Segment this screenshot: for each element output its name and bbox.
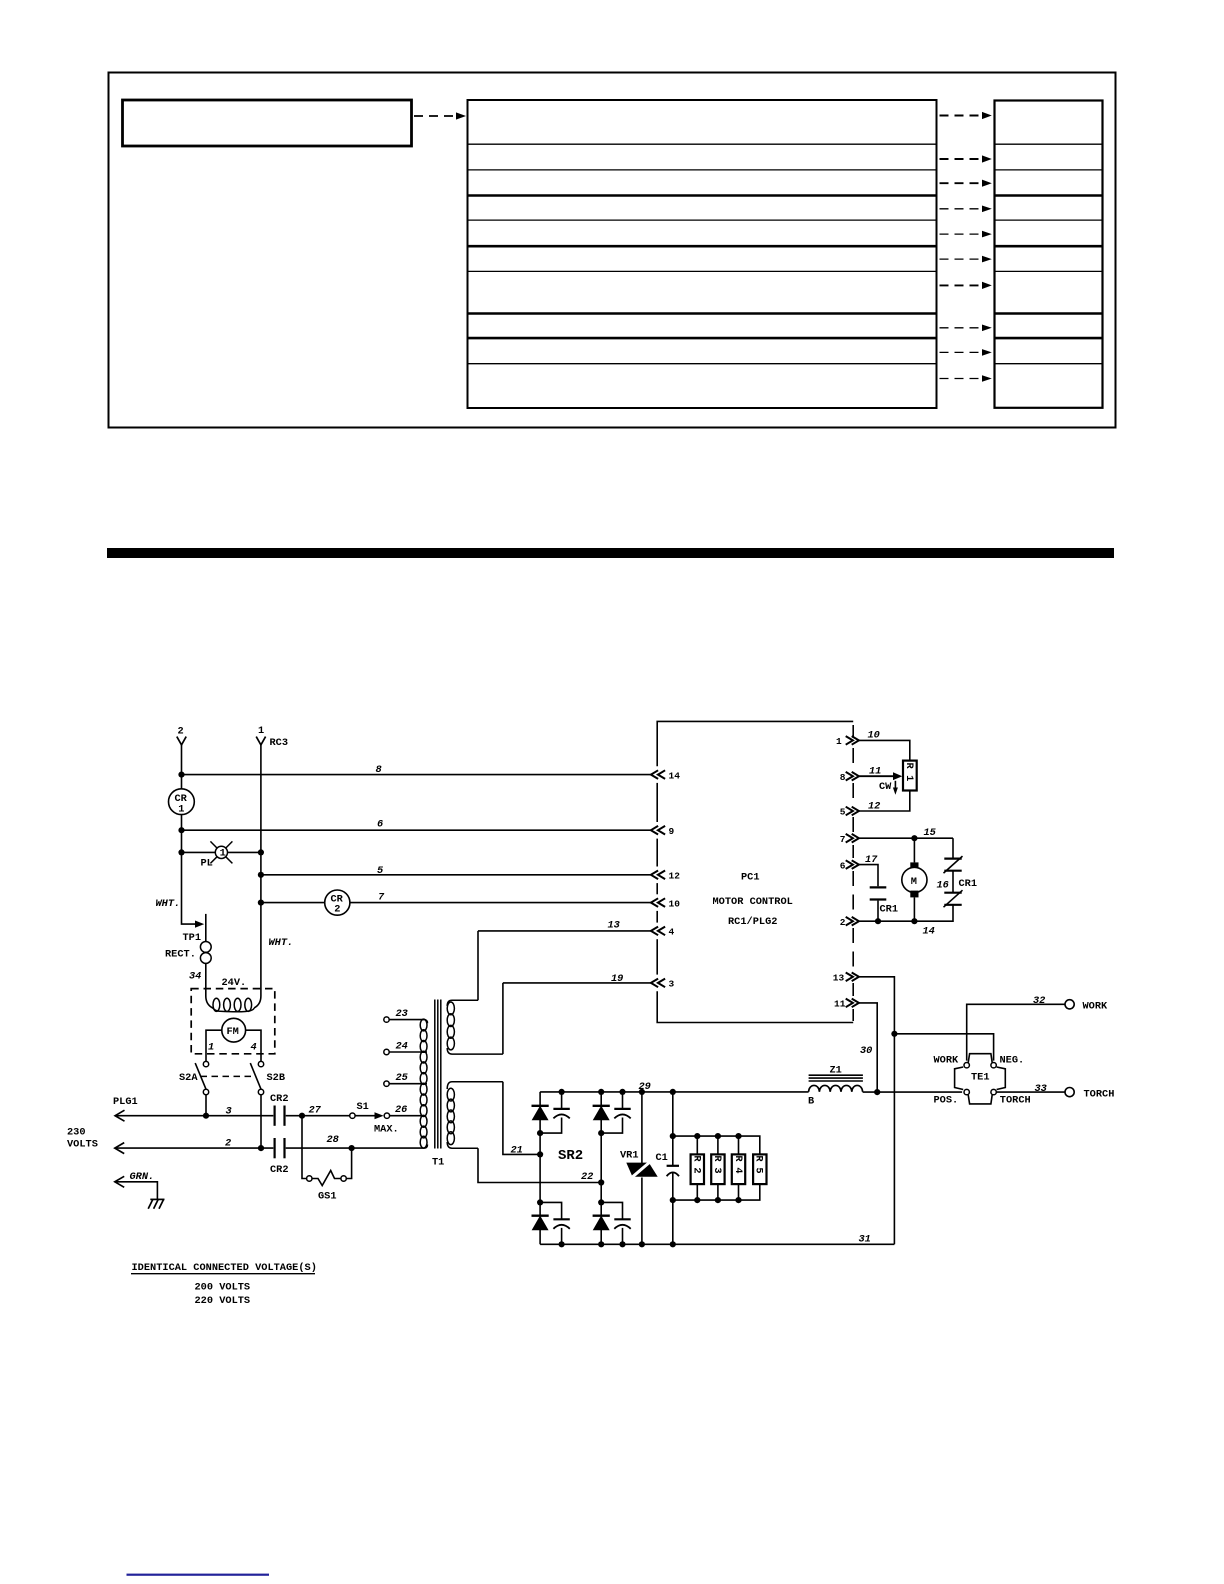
- pin 4 chevron: [651, 927, 665, 936]
- svg-text:WORK: WORK: [934, 1055, 960, 1067]
- bottom blue rule: [127, 1574, 270, 1576]
- wire 12: [859, 791, 910, 812]
- svg-text:12: 12: [868, 801, 880, 813]
- transformer T1 primary winding: [420, 1019, 427, 1148]
- junction on pos rail: [874, 1089, 880, 1095]
- svg-text:R4: R4: [732, 1155, 744, 1179]
- svg-text:23: 23: [396, 1008, 408, 1020]
- transformer core: [435, 1000, 441, 1149]
- terminal TORCH (RC): [1065, 1088, 1074, 1097]
- svg-text:GS1: GS1: [318, 1191, 337, 1203]
- pos rail continue to POS terminal: [863, 1091, 963, 1093]
- table arrow from small box: [414, 112, 466, 119]
- snubber cap upper-left: [540, 1092, 562, 1133]
- pin 1 chevron: [846, 736, 859, 745]
- svg-text:WORK: WORK: [1083, 1000, 1109, 1012]
- wire WORK branch: [967, 1004, 1065, 1060]
- test point TP1 vertical: [205, 914, 207, 942]
- svg-text:R5: R5: [752, 1155, 764, 1179]
- svg-text:9: 9: [669, 826, 675, 837]
- contact CR2 upper: [275, 1106, 285, 1126]
- junction 27: [299, 1113, 305, 1119]
- bridge bottom rail: [540, 1243, 894, 1245]
- FM leads: [206, 1030, 222, 1061]
- terminal WORK (RC): [1065, 1000, 1074, 1009]
- pin 14 chevron: [651, 770, 665, 779]
- wire arrow into TP1 line: [195, 921, 204, 928]
- pin 9 chevron: [651, 826, 665, 835]
- mechanical link S2A-S2B: [201, 1075, 255, 1077]
- fan motor FM: [222, 1018, 246, 1042]
- svg-text:PLG1: PLG1: [113, 1096, 138, 1108]
- junctions leg2: [598, 1089, 604, 1095]
- svg-text:2: 2: [840, 917, 846, 928]
- svg-text:MOTOR CONTROL: MOTOR CONTROL: [713, 896, 793, 908]
- svg-text:Z1: Z1: [830, 1065, 842, 1077]
- svg-text:32: 32: [1033, 995, 1045, 1007]
- junction: [258, 849, 264, 855]
- svg-text:24V.: 24V.: [222, 977, 247, 989]
- svg-text:14: 14: [669, 770, 681, 781]
- svg-text:B: B: [808, 1096, 814, 1108]
- wire NEG branch: [894, 1034, 993, 1061]
- svg-text:1: 1: [258, 725, 264, 737]
- table arrows middle to right column: [940, 112, 992, 289]
- svg-text:1: 1: [208, 1042, 214, 1054]
- terminal block TE1 outline: [955, 1054, 1006, 1104]
- pilot lamp PL: [210, 841, 232, 863]
- svg-text:34: 34: [189, 971, 201, 983]
- svg-text:2: 2: [334, 904, 340, 916]
- bridge top rail: [540, 1091, 809, 1093]
- svg-text:CR1: CR1: [880, 904, 899, 916]
- svg-text:21: 21: [511, 1145, 523, 1157]
- svg-text:TP1: TP1: [183, 932, 202, 944]
- node RC3 pin 1 arrow: [256, 737, 265, 745]
- svg-text:11: 11: [834, 999, 846, 1010]
- TE1 terminal circles: [964, 1063, 969, 1068]
- stabilizer Z1 core: [809, 1075, 863, 1081]
- wire 26 to transformer tap: [390, 1115, 424, 1117]
- wire 10: [859, 740, 910, 760]
- wire 11 with wiper arrow: [859, 775, 894, 777]
- wire 13 vertical to upper secondary: [477, 931, 479, 1000]
- pin 7 chevron: [846, 834, 859, 843]
- svg-text:1: 1: [178, 804, 184, 816]
- table small box top-left: [123, 100, 412, 146]
- snubber cap lower-left: [540, 1202, 562, 1244]
- motor M leads and terminals: [913, 838, 915, 862]
- pin 5 chevron: [846, 807, 859, 816]
- svg-text:26: 26: [395, 1104, 407, 1116]
- junction 28: [349, 1145, 355, 1151]
- relay coil CR1: [169, 789, 195, 815]
- svg-text:C1: C1: [656, 1152, 668, 1164]
- bridge leg 2: [600, 1092, 602, 1244]
- svg-text:24: 24: [396, 1041, 408, 1053]
- junction: [911, 835, 917, 841]
- svg-text:VR1: VR1: [620, 1150, 639, 1162]
- wire S2A to wire 3: [205, 1095, 207, 1116]
- svg-text:S1: S1: [357, 1101, 369, 1113]
- svg-text:TE1: TE1: [971, 1072, 990, 1084]
- contact CR2 lower: [275, 1138, 285, 1158]
- svg-text:R1: R1: [903, 763, 915, 788]
- board PC1 right dashed edge: [852, 725, 854, 1021]
- svg-text:12: 12: [669, 871, 681, 882]
- resistor network rail bottom: [673, 1184, 760, 1200]
- wire: left vertical from pin 2 down to bend: [182, 745, 197, 924]
- snubber cap lower-right: [601, 1202, 622, 1244]
- wire 19 vertical: [502, 983, 504, 1054]
- bridge leg 1: [539, 1092, 541, 1244]
- svg-text:5: 5: [377, 865, 384, 877]
- transformer tap 23: [384, 1017, 389, 1022]
- wire 6: [182, 829, 651, 831]
- svg-text:220 VOLTS: 220 VOLTS: [195, 1295, 251, 1307]
- svg-text:13: 13: [833, 973, 845, 984]
- svg-text:CW: CW: [879, 781, 892, 793]
- svg-text:R3: R3: [711, 1155, 723, 1179]
- table middle column: [468, 100, 937, 408]
- wire 8: [182, 774, 651, 776]
- 24V coil loops: [213, 998, 254, 1012]
- pin 3 chevron: [651, 979, 665, 988]
- junction: [258, 900, 264, 906]
- spark gap GS1: [307, 1176, 312, 1181]
- svg-text:PC1: PC1: [741, 872, 760, 884]
- wire 17 and contact CR1: [859, 865, 878, 887]
- junction: [178, 827, 184, 833]
- varistor VR1: [641, 1092, 643, 1244]
- svg-text:GRN.: GRN.: [130, 1171, 155, 1183]
- svg-text:T1: T1: [432, 1157, 444, 1169]
- svg-text:FM: FM: [227, 1026, 239, 1038]
- table right column: [995, 101, 1103, 408]
- svg-text:19: 19: [611, 973, 623, 985]
- wire 19: [503, 982, 651, 984]
- svg-text:27: 27: [309, 1105, 322, 1117]
- svg-text:NEG.: NEG.: [1000, 1055, 1025, 1067]
- svg-text:SR2: SR2: [558, 1148, 583, 1164]
- svg-text:TORCH: TORCH: [1000, 1095, 1031, 1107]
- svg-text:TORCH: TORCH: [1084, 1088, 1115, 1100]
- wire GS1 up to wire 2: [346, 1148, 351, 1178]
- table outer frame: [109, 73, 1116, 428]
- capacitor C1: [672, 1092, 674, 1244]
- svg-text:CR2: CR2: [270, 1164, 289, 1176]
- svg-text:14: 14: [923, 926, 935, 938]
- section divider bar: [107, 548, 1114, 558]
- svg-text:11: 11: [869, 766, 881, 778]
- svg-text:M: M: [911, 876, 917, 888]
- svg-text:200 VOLTS: 200 VOLTS: [195, 1282, 251, 1294]
- svg-text:13: 13: [608, 920, 620, 932]
- resistor R2: [696, 1136, 698, 1200]
- svg-text:3: 3: [226, 1106, 232, 1118]
- diode SR2-1: [532, 1106, 549, 1120]
- svg-text:2: 2: [178, 726, 184, 738]
- node GRN arrow and wire: [115, 1176, 124, 1187]
- svg-text:S2A: S2A: [179, 1072, 198, 1084]
- wire junction27 down to GS1: [302, 1116, 307, 1179]
- diode SR2-4: [593, 1216, 610, 1230]
- pin 10 chevron: [651, 898, 665, 907]
- wire 30 vertical (pin 11 to pos rail): [859, 1003, 877, 1092]
- transformer tap 25: [384, 1081, 389, 1086]
- svg-text:4: 4: [251, 1042, 257, 1054]
- resistor R5: [753, 1154, 766, 1184]
- svg-text:S2B: S2B: [267, 1072, 286, 1084]
- svg-text:22: 22: [581, 1171, 593, 1183]
- svg-text:CR1: CR1: [959, 878, 978, 890]
- svg-text:RC3: RC3: [270, 737, 289, 749]
- relay coil CR2 on wire 7: [325, 890, 350, 915]
- node PLG1 wire 2 arrow: [115, 1143, 124, 1154]
- diode SR2-2: [593, 1106, 610, 1120]
- svg-text:7: 7: [378, 891, 385, 903]
- wire 3 right of CR2 contact to S1: [286, 1115, 350, 1117]
- svg-text:10: 10: [669, 898, 681, 909]
- svg-text:16: 16: [937, 880, 949, 892]
- wire 7: [261, 902, 325, 904]
- wire from TP1 to 24V coil: [206, 963, 213, 1008]
- wire 5: [261, 874, 651, 876]
- node RC3 pin 2 arrow: [177, 737, 186, 745]
- junction: [203, 1113, 209, 1119]
- contact CR1 pair on right branch: [952, 838, 954, 858]
- junction: [258, 1145, 264, 1151]
- svg-text:31: 31: [859, 1234, 871, 1246]
- svg-text:1: 1: [836, 736, 842, 747]
- svg-text:15: 15: [924, 827, 937, 839]
- snubber cap upper-right: [601, 1092, 622, 1133]
- svg-text:R2: R2: [691, 1155, 703, 1179]
- svg-text:230: 230: [67, 1127, 86, 1139]
- svg-text:IDENTICAL CONNECTED VOLTAGE(S): IDENTICAL CONNECTED VOLTAGE(S): [132, 1262, 317, 1274]
- svg-text:17: 17: [865, 854, 878, 866]
- junction: [258, 872, 264, 878]
- junctions leg1: [537, 1130, 543, 1136]
- junction: [911, 918, 917, 924]
- junction: [178, 772, 184, 778]
- svg-text:3: 3: [669, 979, 675, 990]
- pin 8 chevron: [846, 772, 859, 781]
- wire PL branch: [182, 851, 216, 853]
- pin 6 chevron: [846, 860, 859, 869]
- svg-text:1: 1: [220, 848, 226, 860]
- wire: RC3 vertical down into 24V box to coil: [254, 745, 261, 1008]
- svg-text:CR2: CR2: [270, 1093, 289, 1105]
- wire 15: [859, 837, 953, 839]
- svg-text:PL: PL: [201, 858, 213, 870]
- board PC1 outline: [657, 721, 853, 766]
- wire 2: [115, 1147, 273, 1149]
- switch S2B: [258, 1061, 263, 1066]
- ground chassis symbol: [148, 1199, 164, 1208]
- svg-text:RECT.: RECT.: [165, 949, 196, 961]
- pin 11 chevron: [846, 999, 859, 1008]
- node PLG1 wire 3 arrow: [115, 1110, 124, 1121]
- svg-text:6: 6: [377, 819, 383, 831]
- svg-text:MAX.: MAX.: [374, 1124, 399, 1136]
- svg-text:5: 5: [840, 807, 846, 818]
- svg-text:30: 30: [860, 1045, 872, 1057]
- svg-text:8: 8: [376, 764, 382, 776]
- potentiometer R1 box: [903, 761, 917, 791]
- resistor network rail top: [673, 1136, 760, 1154]
- wire 13: [478, 930, 651, 932]
- 24V dashed box: [191, 989, 275, 1054]
- wire TORCH branch: [996, 1091, 1065, 1093]
- svg-text:POS.: POS.: [934, 1095, 959, 1107]
- transformer tap 24: [384, 1049, 389, 1054]
- wire 21 vertical from lower secondary: [503, 1082, 540, 1155]
- svg-text:VOLTS: VOLTS: [67, 1139, 98, 1151]
- svg-text:6: 6: [840, 860, 846, 871]
- svg-text:4: 4: [669, 927, 675, 938]
- TP1 circles: [200, 942, 211, 964]
- resistor R4: [738, 1136, 740, 1200]
- transformer lower secondary: [447, 1082, 503, 1149]
- svg-text:RC1/PLG2: RC1/PLG2: [728, 916, 777, 928]
- svg-text:WHT.: WHT.: [156, 898, 181, 910]
- CW down arrow: [894, 781, 896, 788]
- diode SR2-3: [532, 1216, 549, 1230]
- junction: [178, 849, 184, 855]
- junction: [875, 918, 881, 924]
- wire 3: [115, 1115, 273, 1117]
- svg-text:8: 8: [840, 772, 846, 783]
- svg-text:7: 7: [840, 834, 846, 845]
- svg-text:WHT.: WHT.: [269, 937, 294, 949]
- svg-text:28: 28: [327, 1134, 339, 1146]
- svg-text:25: 25: [396, 1072, 409, 1084]
- resistor R3: [717, 1136, 719, 1200]
- junction on wire 31: [891, 1031, 897, 1037]
- pin 13 chevron: [846, 973, 859, 982]
- wire 2 right of CR2 to transformer: [286, 1147, 422, 1149]
- pin 12 chevron: [651, 871, 665, 880]
- switch S1: [350, 1113, 355, 1118]
- svg-text:29: 29: [639, 1081, 651, 1093]
- wire 31 vertical (pin 13 to bottom rail): [859, 977, 895, 1245]
- switch S2A: [203, 1061, 208, 1066]
- transformer upper secondary: [447, 1000, 503, 1054]
- stabilizer Z1 winding on pos rail: [809, 1085, 863, 1092]
- svg-text:33: 33: [1035, 1083, 1047, 1095]
- svg-text:2: 2: [225, 1138, 231, 1150]
- wire S2B to wire 2: [260, 1095, 262, 1148]
- svg-text:10: 10: [868, 730, 880, 742]
- pin 2 chevron: [846, 917, 859, 926]
- wire 22 vertical from lower secondary: [478, 1148, 601, 1182]
